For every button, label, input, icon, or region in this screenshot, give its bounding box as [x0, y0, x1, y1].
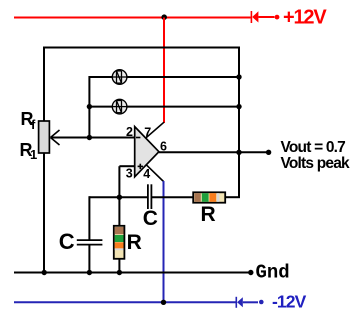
wire feedback vertical x=239 — [238, 152, 240, 197]
node on +12V rail — [161, 14, 167, 20]
node shunt cap / gnd — [87, 270, 92, 275]
node shunt res / gnd — [117, 270, 122, 275]
potentiometer R1/Rf body — [39, 121, 50, 153]
resistor R shunt body — [114, 226, 125, 259]
diode-arrow terminal D+ (red, pointing left) — [251, 11, 279, 23]
wire wiper to pin2 — [51, 137, 135, 139]
node pin3/shunt RC junction — [117, 195, 122, 200]
node lamp1 / right vertical — [236, 74, 241, 79]
wire shunt cap branch top — [88, 196, 90, 240]
wire lamp row 2 — [89, 106, 239, 108]
svg-text:1: 1 — [30, 147, 37, 162]
wire red V+ branch — [163, 18, 165, 124]
diode-arrow terminal D- (blue, pointing left) — [236, 297, 263, 308]
wire left vertical to pot top — [43, 47, 45, 122]
wire shunt cap branch bottom — [88, 245, 90, 273]
svg-text:Gnd: Gnd — [256, 262, 290, 284]
capacitor C shunt plates — [77, 240, 103, 245]
wire feedback row y=197 — [89, 196, 240, 198]
wire right vertical x=239 — [238, 47, 240, 153]
wire pin4 diagonal to V- — [146, 165, 163, 182]
svg-text:Vout = 0.7: Vout = 0.7 — [281, 139, 346, 156]
svg-text:-12V: -12V — [272, 291, 307, 311]
svg-text:C: C — [143, 207, 158, 230]
potentiometer wiper arrow — [51, 130, 60, 145]
svg-text:R: R — [127, 231, 142, 254]
lamp L1 — [112, 70, 127, 85]
node pot branch / gnd — [42, 270, 47, 275]
plus sign pin3 — [138, 164, 143, 169]
op-amp U1 — [135, 127, 159, 177]
node output / feedback — [236, 150, 241, 155]
wire pin3 input — [119, 165, 134, 167]
wire pin3 down to RC node — [118, 166, 120, 197]
svg-text:+12V: +12V — [283, 6, 327, 28]
svg-text:C: C — [59, 229, 75, 254]
node blue branch / -12V rail — [161, 300, 166, 305]
svg-text:Volts peak: Volts peak — [281, 155, 351, 172]
wire pot bottom to ground rail — [43, 153, 45, 273]
wire lamp row 1 — [89, 76, 239, 78]
wire pin7 diagonal to V+ — [146, 122, 164, 138]
node wiper/lamp branch — [87, 135, 92, 140]
svg-text:f: f — [31, 117, 36, 132]
node Gnd terminal — [248, 270, 253, 275]
resistor R series body — [193, 192, 225, 202]
node lamp2 / inverting vertical — [87, 104, 92, 109]
node Vout terminal — [266, 150, 271, 155]
wire shunt res branch bottom — [118, 259, 120, 273]
wire output pin6 — [159, 151, 269, 153]
lamp L2 — [112, 99, 127, 114]
wire shunt res branch top — [118, 197, 120, 226]
capacitor C series plates — [148, 184, 152, 209]
wire ground rail — [14, 272, 250, 274]
node lamp2 / right vertical — [236, 104, 241, 109]
svg-text:3: 3 — [126, 166, 133, 180]
wire inverting-node vertical — [88, 76, 90, 138]
svg-text:R: R — [201, 203, 216, 226]
wire -12V rail — [14, 301, 236, 303]
wire blue V- branch — [163, 181, 165, 302]
wire +12V rail — [14, 17, 251, 19]
svg-text:4: 4 — [143, 167, 150, 181]
wire top loop horizontal — [44, 47, 240, 49]
minus sign pin2 — [136, 137, 140, 139]
svg-text:2: 2 — [126, 125, 133, 139]
